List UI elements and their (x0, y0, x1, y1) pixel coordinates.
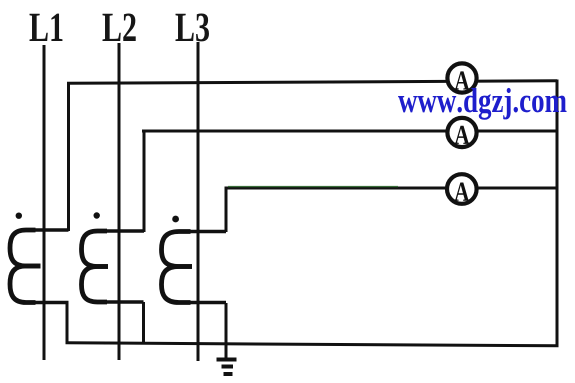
wire T1 secondary drop (66, 303, 69, 345)
wire T2 top stub (100, 229, 144, 232)
wire ammeter A3 feed green tint (228, 186, 398, 188)
wire L2 primary (118, 43, 121, 360)
wire ammeter A2 feed (142, 130, 557, 133)
transformer T2 polarity dot (94, 212, 100, 218)
ammeter A2 (447, 118, 476, 147)
node L1 label (30, 14, 63, 41)
ammeter A1 (447, 63, 476, 92)
wire T3 secondary drop (225, 303, 228, 359)
wire bottom bus (66, 343, 559, 346)
wire L3 primary (197, 42, 200, 361)
wire T3 top stub (183, 230, 226, 233)
transformer T1 polarity dot (16, 213, 22, 219)
wire T2 bottom stub (100, 300, 144, 303)
wire T2 secondary riser (143, 131, 146, 232)
wire T3 bottom stub (183, 301, 226, 304)
watermark text (398, 88, 566, 120)
node L3 label (176, 13, 209, 41)
wire T1 secondary riser (67, 84, 70, 232)
wire T3 secondary riser (225, 188, 228, 232)
transformer T1 secondary winding (10, 230, 41, 303)
transformer T3 polarity dot (172, 216, 179, 223)
wire L1 primary (43, 45, 46, 360)
transformer T3 secondary winding (162, 232, 193, 303)
wire T1 bottom stub (28, 301, 69, 304)
wire common return right (556, 80, 559, 347)
transformer T2 secondary winding (82, 231, 109, 302)
wire T2 secondary drop (142, 302, 145, 344)
wire ammeter A3 feed (225, 187, 558, 190)
wire T1 top stub (28, 228, 69, 231)
wire ammeter A1 feed (67, 81, 557, 84)
node L2 label (103, 13, 136, 41)
ground (217, 360, 237, 375)
ammeter A3 (447, 174, 477, 204)
